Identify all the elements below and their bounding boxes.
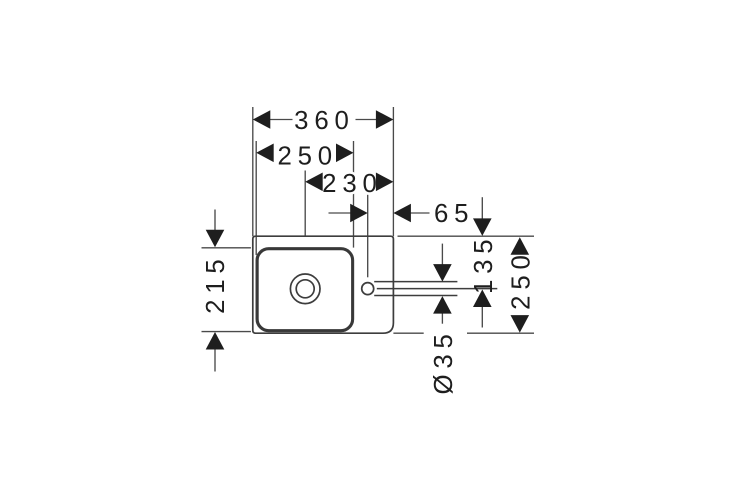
svg-text:250: 250	[507, 249, 535, 309]
svg-text:230: 230	[322, 170, 382, 198]
svg-text:65: 65	[434, 200, 474, 228]
svg-text:250: 250	[277, 142, 337, 170]
svg-text:360: 360	[294, 107, 354, 135]
svg-text:Ø35: Ø35	[430, 328, 458, 394]
svg-text:215: 215	[202, 253, 230, 313]
svg-text:135: 135	[470, 234, 498, 294]
